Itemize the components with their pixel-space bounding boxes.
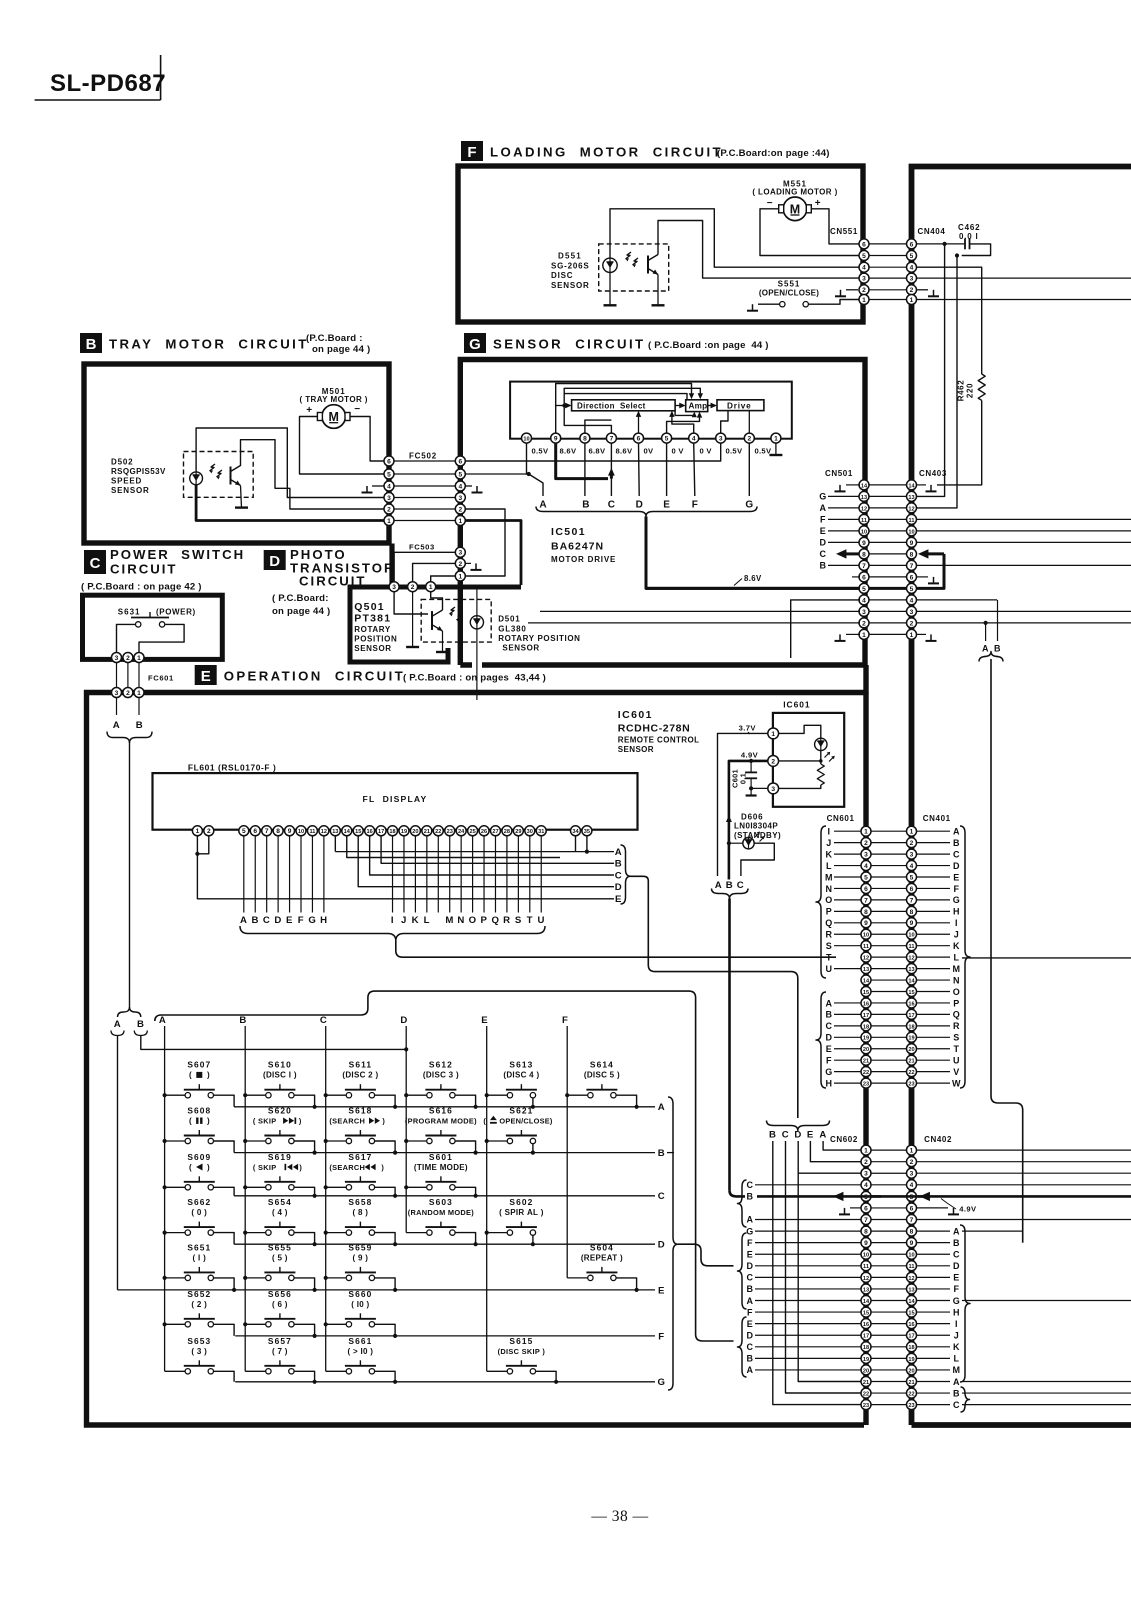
svg-text:14: 14 — [863, 978, 870, 984]
svg-text:C: C — [782, 1130, 790, 1141]
svg-text:15: 15 — [908, 1310, 914, 1316]
svg-text:T: T — [527, 915, 533, 926]
wire FL pin1 to row E — [197, 835, 614, 898]
letters C B A left of CN602 pins 4 5 7 — [746, 1180, 861, 1225]
svg-text:ROTARY POSITION: ROTARY POSITION — [498, 634, 580, 643]
chassis ground CN403 pin14 right — [916, 485, 937, 492]
wire S631 right to FC601 pin1 — [139, 624, 184, 653]
connector FC601 upper pins 3 2 1 — [112, 653, 145, 663]
svg-text:4: 4 — [910, 265, 914, 272]
svg-text:A: A — [982, 644, 989, 654]
svg-text:FC502: FC502 — [409, 452, 437, 461]
svg-text:F: F — [826, 1056, 832, 1066]
switch S613 (DISC 4 ) — [487, 1060, 540, 1107]
svg-text:L: L — [953, 1354, 959, 1364]
wire CN501 pin3 left — [540, 610, 860, 612]
bus matrix rows to CN602 G-A group — [678, 1244, 734, 1266]
svg-text:CN401: CN401 — [923, 814, 951, 823]
svg-text:E: E — [820, 526, 827, 536]
letters A-H under FL pins — [240, 915, 328, 926]
junction S659 column tap — [324, 1276, 328, 1280]
svg-text:G: G — [953, 895, 961, 905]
svg-text:L: L — [424, 915, 430, 926]
wire CN501 pin2 left — [528, 622, 860, 624]
svg-text:E: E — [747, 1250, 754, 1260]
chassis ground at CN404 pin2 — [916, 290, 939, 297]
svg-text:3: 3 — [458, 495, 462, 502]
wire D606 cathode loop to node C — [741, 843, 774, 876]
svg-text:12: 12 — [861, 506, 867, 512]
junction S659 row tap — [393, 1288, 397, 1292]
brace left of CN601 letters I-U — [816, 826, 826, 978]
svg-text:Amp: Amp — [689, 402, 708, 411]
wire FC502 pin2 row down — [465, 509, 505, 576]
svg-text:D: D — [825, 1033, 832, 1043]
svg-text:B: B — [251, 915, 259, 926]
svg-text:FL601 (RSL0170-F ): FL601 (RSL0170-F ) — [188, 763, 277, 773]
wire FL pin2 to pin1 wire — [199, 835, 209, 853]
svg-text:1: 1 — [910, 1148, 914, 1155]
wire D551 anode to CN551 pin4 — [610, 209, 860, 267]
svg-text:14: 14 — [863, 1299, 870, 1305]
svg-text:IC601: IC601 — [618, 709, 653, 721]
svg-text:31: 31 — [538, 829, 544, 835]
matrix column letters A-F — [159, 1015, 569, 1026]
svg-text:−: − — [354, 404, 360, 415]
wire IC501 pin6 into Direction Select — [636, 411, 641, 434]
svg-text:14: 14 — [861, 483, 868, 489]
wire IC501 pin8 to node B — [584, 443, 586, 496]
junction C462 to CN404 pin5 net — [955, 253, 959, 257]
svg-text:( > I0 ): ( > I0 ) — [348, 1347, 374, 1356]
svg-text:1: 1 — [862, 297, 866, 304]
svg-text:B: B — [769, 1130, 777, 1141]
svg-text:E: E — [953, 872, 960, 882]
svg-text:SENSOR: SENSOR — [354, 644, 391, 653]
svg-text:POSITION: POSITION — [354, 635, 397, 644]
letters A B C right of CN402 pins 21-23 — [916, 1377, 1131, 1410]
svg-text:24: 24 — [458, 829, 465, 835]
wire D502 anode to FC502 pin3 — [196, 428, 385, 498]
svg-text:G: G — [825, 1067, 833, 1077]
wire FC503 top pin1 to Q501 collector — [431, 591, 443, 610]
svg-text:on page 44 ): on page 44 ) — [272, 606, 330, 617]
svg-text:): ) — [207, 1071, 210, 1080]
svg-text:(DISC 2 ): (DISC 2 ) — [342, 1071, 378, 1080]
letters A-H left of CN601 pins 16-23 — [825, 998, 861, 1088]
svg-text:H: H — [953, 907, 960, 917]
svg-text:1: 1 — [771, 731, 775, 738]
junction S608 column tap — [163, 1139, 167, 1143]
matrix row labels A-G — [657, 1102, 665, 1388]
svg-text:S: S — [515, 915, 522, 926]
svg-text:3: 3 — [862, 276, 866, 283]
svg-text:D501: D501 — [498, 615, 520, 624]
svg-text:RCDHC-278N: RCDHC-278N — [618, 723, 691, 735]
svg-text:3: 3 — [392, 584, 396, 591]
svg-text:U: U — [953, 1056, 960, 1066]
svg-text:13: 13 — [861, 495, 867, 501]
junction S621 column tap — [485, 1139, 489, 1143]
svg-text:CN601: CN601 — [827, 814, 855, 823]
svg-text:(: ( — [189, 1117, 192, 1126]
svg-text:0.5V: 0.5V — [755, 447, 772, 456]
junction S612 column tap — [404, 1093, 408, 1097]
wire IC501 pin6 to node D — [638, 443, 641, 496]
junction S652 column tap — [163, 1322, 167, 1326]
svg-text:2: 2 — [126, 655, 130, 662]
svg-text:( 4 ): ( 4 ) — [272, 1208, 288, 1217]
switch S551 (OPEN/CLOSE) — [759, 280, 819, 307]
svg-text:1: 1 — [137, 690, 141, 697]
svg-text:25: 25 — [469, 829, 475, 835]
svg-text:): ) — [381, 1163, 384, 1172]
svg-text:CN602: CN602 — [830, 1135, 858, 1144]
svg-text:): ) — [382, 1117, 385, 1126]
wire CN403 pin11 to right edge — [916, 518, 1131, 520]
svg-text:6: 6 — [910, 574, 914, 581]
svg-text:B: B — [746, 1354, 753, 1364]
svg-text:3: 3 — [864, 1171, 868, 1178]
svg-text:1: 1 — [774, 436, 778, 443]
svg-text:( 3 ): ( 3 ) — [191, 1347, 207, 1356]
svg-text:D551: D551 — [558, 252, 582, 261]
block Drive — [717, 400, 764, 411]
wire IC501 pin9 feedback to Amp top — [556, 384, 695, 434]
connector FC601 lower pins 3 2 1 — [112, 688, 145, 698]
svg-text:L: L — [826, 861, 832, 871]
junction S620 row tap — [313, 1151, 317, 1155]
svg-text:2: 2 — [910, 840, 914, 847]
wire CN402 pin1 to right edge — [916, 1149, 1131, 1151]
switch S612 (DISC 3 ) — [406, 1060, 475, 1107]
svg-text:8.6V: 8.6V — [616, 447, 633, 456]
switch S657 ( 7 ) — [245, 1336, 314, 1382]
svg-text:N: N — [825, 884, 832, 894]
svg-text:S613: S613 — [509, 1060, 533, 1070]
wires FC601 between rows — [117, 662, 140, 688]
svg-text:2: 2 — [207, 828, 211, 835]
svg-text:11: 11 — [309, 829, 315, 835]
svg-text:R: R — [825, 930, 832, 940]
chassis ground at FC502 pin4 right — [465, 486, 483, 493]
svg-text:D: D — [269, 553, 280, 570]
wire S551 right to CN551 pin1 — [809, 300, 860, 305]
wire D501 anode up — [476, 587, 478, 616]
svg-text:6: 6 — [253, 828, 257, 835]
svg-text:POWER SWITCH: POWER SWITCH — [110, 547, 245, 562]
svg-text:4: 4 — [910, 597, 914, 604]
svg-text:19: 19 — [908, 1357, 914, 1363]
svg-text:S619: S619 — [268, 1152, 292, 1162]
svg-text:11: 11 — [909, 944, 915, 950]
svg-text:8: 8 — [276, 828, 280, 835]
svg-text:7: 7 — [265, 828, 269, 835]
svg-text:P: P — [481, 915, 488, 926]
svg-text:1: 1 — [458, 518, 462, 525]
junction S602 row tap — [531, 1242, 535, 1246]
node A B labels right of CN403 — [982, 600, 1001, 654]
svg-text:M: M — [952, 964, 960, 974]
svg-text:S618: S618 — [348, 1106, 372, 1116]
svg-text:4: 4 — [864, 863, 868, 870]
switch S618 — [326, 1106, 395, 1153]
junction FL pin1 pin2 — [195, 852, 199, 856]
svg-text:S616: S616 — [429, 1106, 453, 1116]
wire IC601 pin3 to C601 — [751, 787, 768, 789]
letters G A F E D C B at CN501 — [819, 492, 859, 571]
svg-text:— 38 —: — 38 — — [590, 1508, 648, 1525]
wire Direction Select bottom right to Amp bottom — [675, 411, 697, 418]
svg-text:S655: S655 — [268, 1242, 292, 1252]
svg-text:(REPEAT ): (REPEAT ) — [581, 1253, 623, 1262]
svg-text:A: A — [746, 1215, 753, 1225]
wire CN501 pin4 left down — [791, 600, 860, 658]
IC601 internal wires — [778, 725, 823, 788]
svg-text:(DISC SKIP ): (DISC SKIP ) — [498, 1347, 546, 1356]
svg-text:12: 12 — [863, 1276, 869, 1282]
svg-text:19: 19 — [401, 829, 407, 835]
svg-text:I: I — [391, 915, 394, 926]
svg-text:J: J — [401, 915, 407, 926]
wire M501 positive to FC502 pin5 — [300, 417, 386, 475]
svg-text:G: G — [745, 500, 753, 511]
IC601 pins 1 2 3 — [768, 728, 779, 794]
svg-text:34: 34 — [572, 829, 579, 835]
svg-text:10: 10 — [863, 933, 869, 939]
svg-text:IC601: IC601 — [783, 700, 810, 710]
svg-text:S: S — [953, 1033, 960, 1043]
svg-text:(POWER): (POWER) — [156, 607, 196, 616]
svg-text:Direction Select: Direction Select — [577, 401, 646, 410]
svg-text:D606: D606 — [741, 813, 763, 822]
svg-text:G: G — [746, 1226, 754, 1236]
box B tray motor circuit — [84, 364, 389, 543]
wire FL pin17 to row B — [381, 835, 614, 863]
wire CN402 pin8 row to bus corner — [962, 1230, 1023, 1232]
svg-text:A: A — [159, 1015, 167, 1026]
svg-text:0 V: 0 V — [672, 447, 685, 456]
svg-text:18: 18 — [908, 1024, 914, 1030]
brace joining nodes A B to bus — [107, 732, 152, 744]
svg-text:B: B — [746, 1192, 753, 1202]
svg-text:V: V — [953, 1067, 960, 1077]
svg-text:CN551: CN551 — [830, 227, 858, 236]
svg-text:23: 23 — [908, 1082, 914, 1088]
svg-text:1: 1 — [862, 632, 866, 639]
wire label B to CN602 pin23 — [773, 1141, 861, 1405]
svg-text:14: 14 — [344, 829, 351, 835]
svg-text:26: 26 — [481, 829, 487, 835]
svg-text:A: A — [114, 1019, 122, 1030]
pin voltage labels IC501 — [532, 447, 772, 456]
svg-text:22: 22 — [908, 1391, 914, 1397]
svg-text:GL380: GL380 — [498, 624, 526, 633]
svg-text:A: A — [715, 880, 723, 891]
svg-text:1: 1 — [864, 829, 868, 836]
svg-text:C: C — [953, 849, 960, 859]
label D606 LN018304P STANDBY — [726, 813, 781, 841]
svg-text:5: 5 — [862, 586, 866, 593]
svg-text:S662: S662 — [187, 1197, 211, 1207]
thick wire FC502 pin1 row to box D top edge — [465, 521, 521, 586]
svg-text:S604: S604 — [590, 1242, 614, 1252]
wire node A to matrix row E — [117, 1036, 119, 1290]
svg-text:2: 2 — [126, 690, 130, 697]
IC601 internal resistor — [817, 764, 824, 785]
svg-text:18: 18 — [863, 1345, 869, 1351]
svg-text:5: 5 — [910, 586, 914, 593]
switch S659 ( 9 ) — [326, 1242, 395, 1290]
svg-text:FC503: FC503 — [409, 543, 435, 552]
matrix column vertical wires — [165, 1026, 568, 1371]
light arrows D502 — [210, 464, 223, 479]
svg-text:15: 15 — [863, 1310, 869, 1316]
junction S656 row tap — [313, 1334, 317, 1338]
svg-text:F: F — [562, 1015, 568, 1026]
wire CN403 pin2 to right edge — [916, 622, 1131, 624]
svg-text:14: 14 — [908, 483, 915, 489]
label D551 SG-206S DISC SENSOR — [551, 252, 590, 290]
svg-text:10: 10 — [863, 1253, 869, 1259]
svg-text:2: 2 — [864, 840, 868, 847]
svg-text:(SEARCH: (SEARCH — [329, 1163, 365, 1172]
svg-text:+: + — [815, 198, 821, 209]
svg-text:4: 4 — [862, 265, 866, 272]
arrow into Direction Select input — [556, 403, 572, 409]
svg-text:19: 19 — [908, 1036, 914, 1042]
svg-text:3: 3 — [864, 852, 868, 859]
switch S631 (POWER) — [118, 607, 196, 627]
brace left of CN602 letters C B A — [738, 1180, 747, 1227]
wire FL pin16 to row C — [370, 835, 614, 875]
svg-text:D: D — [794, 1130, 802, 1141]
IC601 remote sensor block — [773, 713, 844, 807]
wire FL pin22 down — [437, 835, 439, 912]
switch S654 ( 4 ) — [245, 1197, 314, 1244]
svg-text:16: 16 — [367, 829, 373, 835]
junction S654 column tap — [243, 1231, 247, 1235]
svg-text:13: 13 — [863, 967, 869, 973]
svg-text:): ) — [299, 1117, 302, 1126]
switch S617 — [326, 1152, 395, 1196]
svg-text:8: 8 — [583, 436, 587, 443]
junction S651 column tap — [163, 1276, 167, 1280]
junction S655 row tap — [313, 1288, 317, 1292]
wires FL pins 5-12 to letters A-H — [244, 835, 324, 912]
svg-text:20: 20 — [908, 1047, 914, 1053]
svg-text:30: 30 — [527, 829, 533, 835]
switch S656 ( 6 ) — [245, 1289, 314, 1336]
svg-text:9: 9 — [910, 1240, 914, 1247]
svg-text:RSQGPIS53V: RSQGPIS53V — [111, 467, 166, 476]
svg-text:18: 18 — [389, 829, 395, 835]
svg-text:U: U — [537, 915, 545, 926]
svg-text:G: G — [657, 1377, 665, 1388]
svg-text:+: + — [306, 405, 312, 416]
svg-text:( SPIR AL ): ( SPIR AL ) — [499, 1208, 544, 1217]
bus from CN602 F-A group over matrix columns — [155, 991, 734, 1341]
wires FL pins 23-31 to letters M-U — [450, 835, 542, 912]
svg-text:K: K — [412, 915, 420, 926]
label IC601 RCDHC-278N REMOTE CONTROL SENSOR — [618, 709, 700, 754]
svg-text:LOADING MOTOR CIRCUIT: LOADING MOTOR CIRCUIT — [490, 145, 723, 160]
svg-text:SENSOR: SENSOR — [618, 745, 654, 754]
switch S601 (TIME MODE) — [406, 1152, 475, 1196]
chassis ground at CN551 pin2 — [835, 290, 858, 297]
svg-text:22: 22 — [863, 1070, 869, 1076]
wire IC501 pin7 to node C — [610, 443, 612, 496]
svg-text:M: M — [952, 1365, 960, 1375]
svg-text:O: O — [953, 987, 961, 997]
svg-text:6: 6 — [910, 241, 914, 248]
photodiode D501 — [470, 616, 483, 629]
svg-text:B: B — [239, 1015, 247, 1026]
svg-text:D: D — [953, 1261, 960, 1271]
connector FC503 top pins 3 2 1 — [389, 582, 436, 592]
label 3.7V — [739, 724, 757, 735]
svg-text:0V: 0V — [644, 447, 655, 456]
svg-text:1: 1 — [910, 632, 914, 639]
svg-text:8: 8 — [864, 1228, 868, 1235]
svg-text:S620: S620 — [268, 1106, 292, 1116]
svg-text:(DISC 5 ): (DISC 5 ) — [584, 1071, 620, 1080]
thick wire IC601 pin2 node B bus — [729, 761, 768, 880]
switch S609 — [165, 1152, 235, 1196]
disc sensor D551 SG-206S dashed box — [599, 244, 669, 291]
svg-text:1: 1 — [864, 1148, 868, 1155]
switch S655 ( 5 ) — [245, 1242, 314, 1290]
svg-text:1: 1 — [910, 829, 914, 836]
svg-text:R: R — [953, 1021, 960, 1031]
arrow Amp to Drive — [708, 403, 717, 409]
svg-text:( 9 ): ( 9 ) — [353, 1253, 369, 1262]
chassis ground CN501 pin14 left — [835, 485, 861, 492]
svg-text:7: 7 — [610, 436, 614, 443]
wire Q501 emitter to ground — [442, 631, 444, 652]
bar connecting box G to box E — [863, 665, 868, 694]
connector CN602 to CN402 pins 1-23 — [861, 1145, 917, 1410]
svg-text:−: − — [767, 198, 773, 209]
svg-text:S660: S660 — [348, 1289, 372, 1299]
switch S614 (DISC 5 ) — [567, 1060, 636, 1107]
label D501 GL380 ROTARY POSITION SENSOR — [498, 615, 580, 653]
svg-text:W: W — [952, 1078, 961, 1088]
svg-text:I: I — [955, 918, 958, 928]
brace right of CN401 letters — [960, 826, 970, 1088]
junction S660 row tap — [393, 1334, 397, 1338]
svg-text:3: 3 — [862, 609, 866, 616]
chassis ground CN403 pin1 right — [916, 634, 937, 641]
svg-text:P: P — [953, 998, 960, 1008]
bus A B down left side — [129, 743, 131, 1007]
svg-text:U: U — [825, 964, 832, 974]
svg-text:16: 16 — [908, 1001, 914, 1007]
svg-text:): ) — [207, 1163, 210, 1172]
svg-text:(: ( — [189, 1071, 192, 1080]
svg-text:O: O — [469, 915, 477, 926]
junction S611 row tap — [393, 1105, 397, 1109]
svg-text:22: 22 — [908, 1070, 914, 1076]
svg-text:23: 23 — [863, 1403, 869, 1409]
thick 8.6V wire into CN403 pin8 — [918, 549, 944, 558]
svg-text:ROTARY: ROTARY — [354, 625, 391, 634]
svg-text:8.6V: 8.6V — [744, 574, 762, 583]
svg-text:13: 13 — [908, 495, 914, 501]
junction S615 row tap — [554, 1380, 558, 1384]
svg-text:F: F — [692, 500, 698, 511]
wire CN404 pin6 net down to CN403 pin13 — [916, 244, 944, 497]
